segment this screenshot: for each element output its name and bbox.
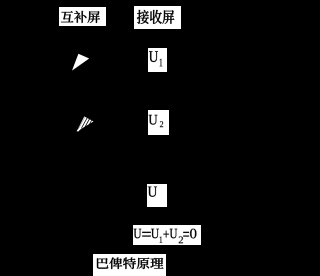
equation box bbox=[133, 225, 201, 245]
label U2 bbox=[0, 0, 216, 276]
box U: free propagation (no screen) bbox=[147, 184, 167, 207]
text 互补屏 bbox=[0, 0, 216, 40]
box U1: diffraction field of aperture bbox=[148, 48, 167, 72]
text 接收屏 bbox=[0, 0, 216, 40]
box U2: diffraction field of obstacle bbox=[148, 110, 169, 135]
label box: complementary screens 互补屏 bbox=[59, 7, 106, 27]
caption box: Babinet principle 巴俾特原理 bbox=[93, 254, 166, 276]
label U1 bbox=[0, 0, 216, 276]
text 巴俾特原理 bbox=[0, 0, 216, 276]
screen 2: complementary triangular obstacle (hatched) bbox=[0, 0, 216, 276]
label U bbox=[0, 0, 216, 276]
equation U=U1+U2=0 bbox=[0, 0, 216, 276]
screen 1: triangular aperture (solid white) bbox=[0, 0, 216, 276]
label box: receiving screen 接收屏 bbox=[134, 6, 181, 30]
